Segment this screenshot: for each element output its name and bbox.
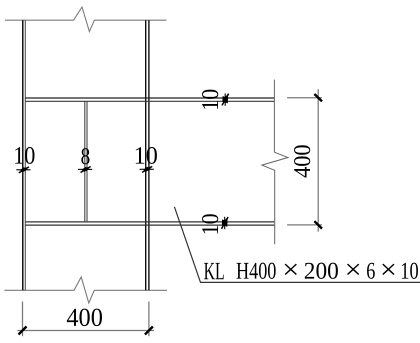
dimension line 400 horizontal: [17, 330, 154, 332]
weld symbol beam bottom flange: [222, 217, 229, 229]
svg-text:10: 10: [13, 143, 35, 170]
dimension tick top: [314, 94, 322, 101]
extension line left of column width dimension: [22, 302, 24, 337]
dimension tick bottom: [314, 221, 322, 228]
extension line top of beam depth dimension: [287, 97, 322, 99]
column left flange inner line: [24, 20, 26, 290]
svg-text:×: ×: [282, 255, 299, 286]
leader line to beam designation: [174, 207, 420, 283]
dimension tick left: [19, 327, 27, 335]
column right flange inner line: [145, 20, 147, 290]
beam bottom flange lower line: [25, 224, 274, 226]
svg-text:10: 10: [198, 213, 224, 235]
svg-text:400: 400: [66, 303, 103, 332]
weld symbol beam top flange: [222, 93, 229, 105]
beam end break line: [262, 80, 288, 245]
column right flange outer line: [148, 20, 150, 290]
beam bottom flange upper line: [25, 221, 274, 223]
extension line bottom of beam depth dimension: [287, 224, 322, 226]
svg-text:H400: H400: [236, 259, 276, 285]
column bottom break line: [4, 277, 167, 303]
svg-text:10: 10: [400, 259, 418, 285]
dimension tick right: [145, 327, 153, 335]
column left flange outer line: [22, 20, 24, 290]
svg-text:6: 6: [366, 259, 375, 285]
beam top flange lower line: [25, 100, 274, 102]
svg-text:×: ×: [380, 255, 397, 286]
dimension line 400 vertical: [317, 89, 319, 231]
svg-text:10: 10: [134, 143, 158, 170]
svg-text:200: 200: [304, 259, 339, 285]
beam web double line right: [86, 101, 88, 222]
svg-text:×: ×: [345, 255, 362, 286]
weld symbol left: [16, 167, 30, 173]
beam top flange upper line: [25, 97, 274, 99]
svg-text:KL: KL: [204, 258, 225, 285]
svg-text:400: 400: [290, 144, 316, 178]
column top break line: [5, 7, 167, 32]
weld symbol center: [78, 167, 92, 173]
beam web double line left: [84, 101, 86, 222]
weld symbol right: [140, 166, 154, 172]
svg-text:10: 10: [198, 89, 224, 111]
svg-text:8: 8: [81, 144, 91, 170]
extension line right of column width dimension: [148, 302, 150, 337]
